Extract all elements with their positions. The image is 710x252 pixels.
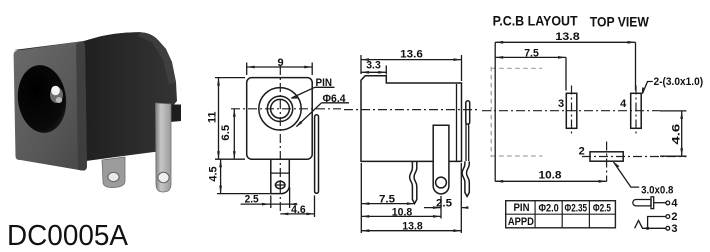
front view body square [247,78,313,160]
slot 4 centerline [635,86,637,137]
side metal lug with hole [156,103,172,192]
slot 3 [566,93,577,128]
dim 3.3 line [361,71,386,73]
dim 13.6 extension lines [361,55,462,81]
dim 9 extension lines [247,63,313,76]
dim 13.8 line [361,230,461,232]
table column lines [535,201,589,228]
bottom tab shoulder line [271,172,290,174]
dim 13.8 pcb line [495,41,635,43]
svg-text:10.8: 10.8 [539,170,562,182]
side view right lug stem [466,124,469,162]
side view right wavy pin [462,161,469,196]
vertical centerline [279,66,281,214]
pin 2 lead [648,217,666,229]
side bottom extension lines [361,163,461,233]
side view right lug [466,101,470,124]
slot4 extension line [635,42,637,90]
svg-text:7.5: 7.5 [524,47,539,59]
svg-text:2: 2 [579,146,585,158]
svg-text:13.8: 13.8 [402,221,423,233]
table frame [506,201,616,228]
pcb left extension line [494,42,496,181]
svg-text:9: 9 [278,57,284,69]
svg-text:DC0005A: DC0005A [7,220,129,252]
plug flange [651,197,654,209]
dim 6.5 line [233,109,235,159]
jack side nub [170,105,181,123]
dim 4.6 pcb line [681,111,683,156]
svg-text:2: 2 [671,211,677,223]
dim 9 line [247,66,313,68]
slot 2 horizontal centerline [582,156,687,158]
slot 3 centerline [571,86,573,137]
dim 10.8 line [361,215,441,217]
side view tab hole [436,177,447,188]
side view left wavy pin [410,161,417,203]
jack body step shade [156,108,171,152]
table row line [506,213,616,215]
jack front plate [14,41,87,170]
bottom tab [271,159,290,193]
dim 4.5 bottom extension [217,193,270,195]
dim 11 extension lines [215,78,245,160]
side bar extension [314,196,316,218]
side view horizontal centerline [344,109,478,111]
svg-text:2-(3.0x1.0): 2-(3.0x1.0) [654,76,704,88]
front plate right bevel [76,41,87,170]
svg-text:6.5: 6.5 [220,125,232,141]
tab extension lines [271,187,290,208]
dim 11 line [218,78,220,160]
svg-text:4.5: 4.5 [208,166,220,181]
leader 3.0x0.8 [614,162,640,187]
svg-text:3: 3 [671,223,677,235]
bottom tab hole [275,181,285,188]
svg-text:3.0x0.8: 3.0x0.8 [641,184,673,196]
dim 4.6 line [280,213,314,215]
plug barrel [633,200,651,206]
svg-text:7.5: 7.5 [379,194,395,206]
jack body right face [84,32,177,161]
svg-text:Φ2.35: Φ2.35 [565,202,588,214]
dim 10.8 pcb line [495,180,606,182]
svg-text:4.6: 4.6 [671,124,683,145]
center pin [50,87,63,103]
slot3 extension line [565,57,567,90]
svg-text:3: 3 [558,98,564,110]
barrel middle circle [267,96,292,121]
dim 3.3 extension line [385,66,387,75]
svg-text:13.8: 13.8 [555,31,580,43]
side view body outline [361,76,462,162]
center pin highlight [51,86,60,96]
barrel hole [14,62,70,135]
side view mounting tab [433,125,449,194]
dim 4.5 line [220,159,222,193]
pin 3 terminal [666,226,670,230]
leader to slot 4 [643,82,653,94]
pin 4 terminal [666,201,670,205]
side view inner vertical line [456,84,458,161]
dim 4.6 pcb extension lines [660,111,687,156]
svg-text:10.8: 10.8 [392,207,413,219]
dia 6.4 underline and leader [297,103,350,127]
barrel inner pin circle [271,99,290,118]
pcb main horizontal centerline [482,110,660,112]
horizontal centerline [231,108,341,110]
svg-text:11: 11 [206,111,218,123]
pin 3 spring contact [635,221,666,229]
slot 4 [631,93,642,128]
jack body corner sheen [138,32,176,84]
bottom tab hole center marks [276,181,284,189]
svg-text:13.6: 13.6 [400,48,423,60]
junction dot [646,227,649,230]
PIN underline and leader [292,87,335,98]
right side lug bar [315,115,319,194]
svg-text:P.C.B LAYOUT: P.C.B LAYOUT [493,13,578,29]
slot 2 [590,152,623,161]
svg-text:Φ2.0: Φ2.0 [538,202,558,214]
svg-text:3.3: 3.3 [366,60,381,72]
pin 4 lead [654,202,666,204]
dim 2.5 line [241,203,298,205]
jack top face [14,32,166,58]
slot 2 vertical centerline [606,142,608,182]
dim 13.6 line [361,59,462,61]
dim 7.5 pcb line [495,56,566,58]
svg-text:PIN: PIN [514,202,530,214]
svg-text:Φ2.5: Φ2.5 [593,202,611,214]
dim 7.5 line [361,203,415,205]
svg-text:TOP VIEW: TOP VIEW [590,13,650,29]
pin 2 terminal [666,215,670,219]
svg-text:APPD: APPD [508,216,534,228]
pcb phantom outline dashed [491,67,542,157]
svg-text:4: 4 [620,98,627,110]
barrel outer circle [259,88,301,130]
dim 2.5 side line [424,207,469,209]
rear small pin lug [102,157,125,188]
svg-text:4: 4 [671,197,678,209]
